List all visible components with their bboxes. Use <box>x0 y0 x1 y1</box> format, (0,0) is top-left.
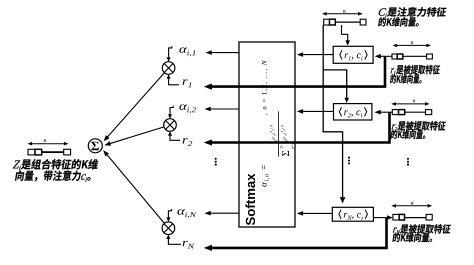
note rN text <box>393 224 452 234</box>
note: Z_i text <box>12 159 98 170</box>
wire rN box to glyph (reversed arrow) <box>373 217 387 219</box>
wire ci to (r1,ci) <box>342 25 348 41</box>
thick wire r2 <box>212 112 390 142</box>
wire softmax to alpha_i,1 <box>212 52 240 54</box>
wire alpha_iN into xN <box>168 209 171 217</box>
vector r_2 <box>395 103 426 105</box>
thick wire rN <box>212 218 387 248</box>
dots right <box>407 158 409 160</box>
wire alpha_i2 into x2 <box>170 106 173 114</box>
vector Z_i (combined feature) <box>31 143 65 145</box>
summation node Σ <box>88 139 102 153</box>
label alpha_i,N <box>177 209 196 218</box>
wire softmax to alpha_i,N <box>211 212 240 214</box>
wire (rN,ci) to softmax <box>303 212 332 214</box>
box (rN,ci) <box>332 207 373 221</box>
wire r2 into x2 <box>170 136 180 141</box>
label r_2 <box>183 138 193 146</box>
wire ci to (r2,ci) <box>323 70 347 99</box>
softmax formula <box>262 60 294 187</box>
multiplier node x1 <box>162 62 175 75</box>
vector r_N <box>395 205 429 207</box>
vector c_i <box>326 13 360 15</box>
wire xN to Σ <box>106 154 164 223</box>
wire rN into xN <box>168 239 181 244</box>
multiplier node x2 <box>164 119 177 132</box>
wire ci bus down <box>322 25 324 70</box>
note r2 text <box>391 121 446 131</box>
wire ci bus lower <box>323 70 342 199</box>
multiplier node xN <box>162 222 175 235</box>
wire softmax to alpha_i,2 <box>211 108 240 110</box>
box (r1,ci) <box>333 46 373 63</box>
wire r2 junction to box <box>381 111 393 113</box>
note ci text <box>378 7 447 17</box>
label alpha_i,2 <box>179 104 196 113</box>
label r_1 <box>183 79 192 87</box>
box (r2,ci) <box>334 104 372 120</box>
dots left <box>215 158 217 160</box>
wire r1 junction to box <box>381 55 392 57</box>
dots mid <box>348 157 350 159</box>
softmax box U1 <box>239 42 295 227</box>
note r1 text <box>390 65 440 75</box>
wire alpha_i1 into x1 <box>169 46 172 57</box>
vector r_1 <box>396 44 427 46</box>
wire x2 to Σ <box>109 127 164 144</box>
wire x1 to Σ <box>107 73 164 138</box>
wire r1 into x1 <box>169 79 179 85</box>
wire (r1,ci) to softmax <box>303 54 333 56</box>
wire (r2,ci) to softmax <box>303 110 334 112</box>
label r_N <box>183 241 195 249</box>
label alpha_i,1 <box>179 47 195 56</box>
thick wire r1 <box>212 56 386 86</box>
